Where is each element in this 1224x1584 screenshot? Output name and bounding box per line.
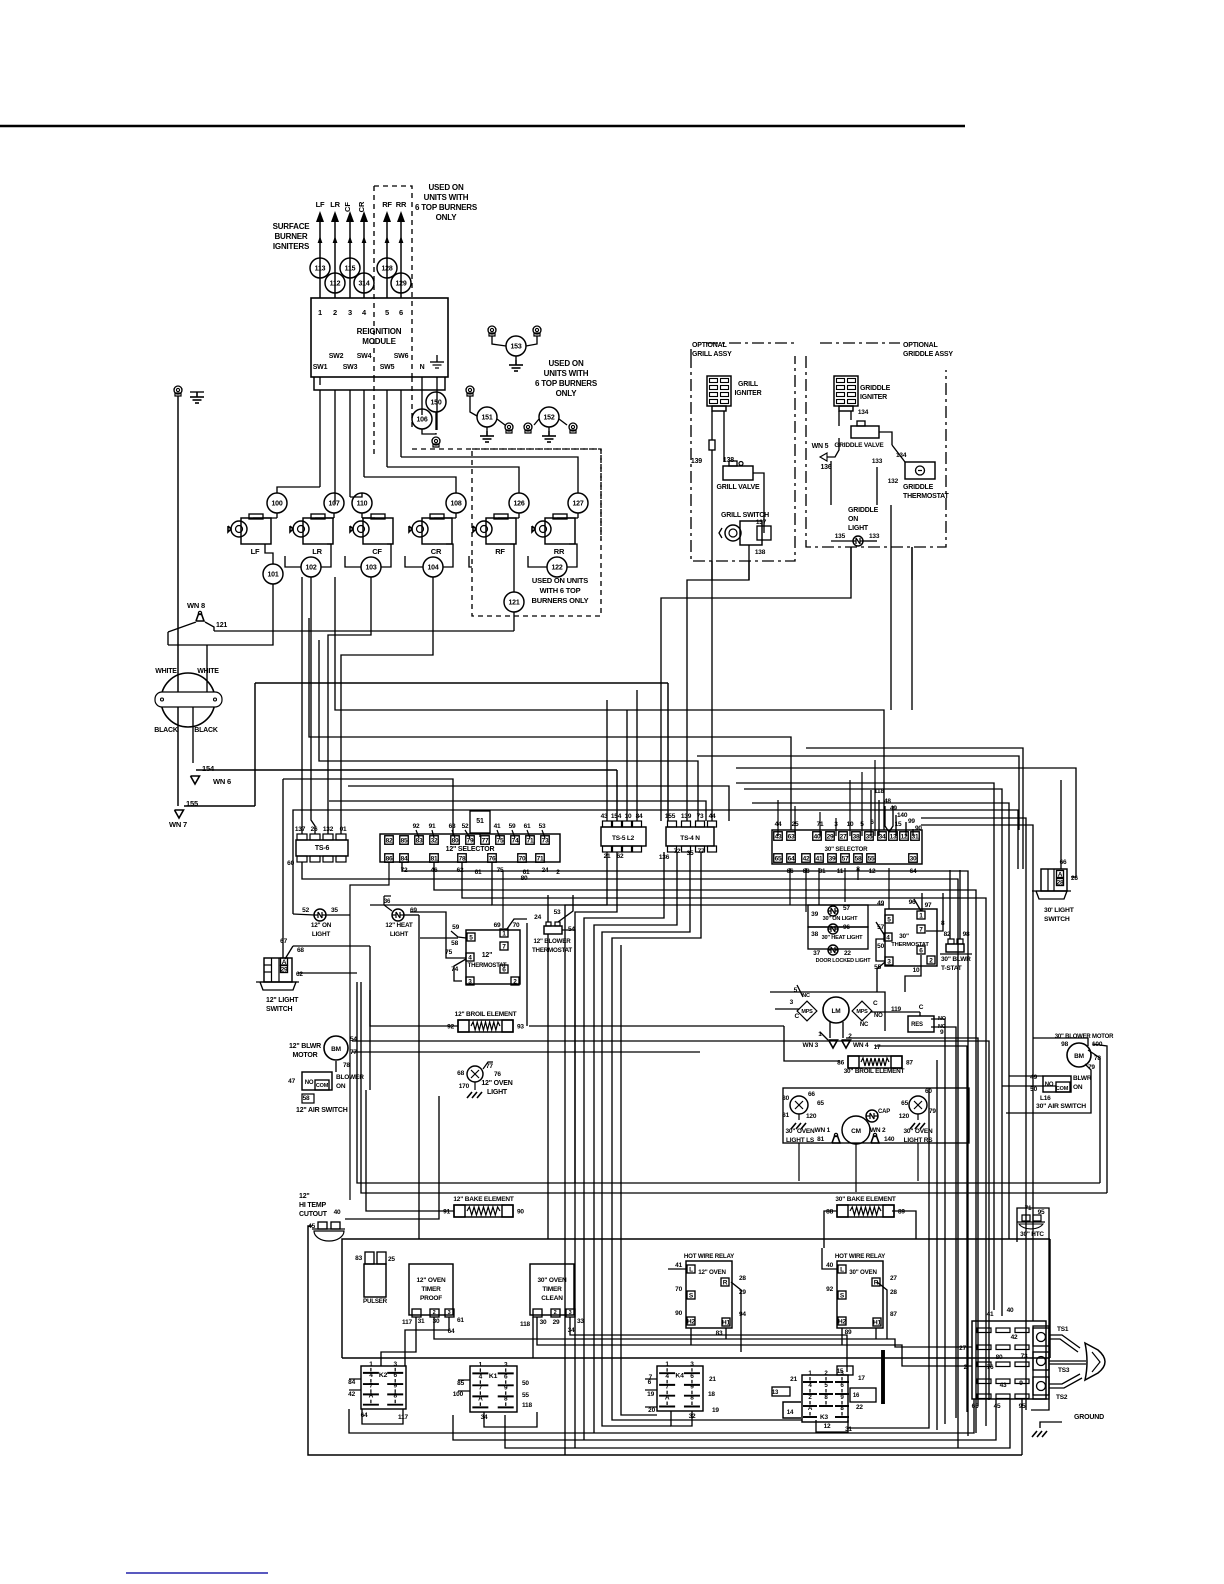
svg-text:65: 65 xyxy=(775,856,782,863)
wire bottom run 3 xyxy=(453,1399,996,1440)
wire k2 bottom loop xyxy=(362,1409,403,1424)
svg-text:K4: K4 xyxy=(675,1373,684,1380)
mps switch left xyxy=(797,1001,817,1021)
svg-text:57: 57 xyxy=(843,905,850,912)
svg-text:47: 47 xyxy=(288,1078,295,1085)
svg-text:ON: ON xyxy=(1073,1084,1083,1091)
wire belt y803 xyxy=(752,803,1009,1239)
wire bm78 lead xyxy=(1092,1044,1107,1193)
svg-text:4: 4 xyxy=(665,1373,669,1380)
switch 12 air switch xyxy=(302,1072,332,1090)
wire 106-150 terminal xyxy=(422,429,436,434)
svg-text:58: 58 xyxy=(451,940,458,947)
svg-text:1: 1 xyxy=(919,913,923,920)
wire belt y783 xyxy=(736,783,994,1310)
ground below 151 xyxy=(486,427,488,431)
wire timer12 t2 down xyxy=(434,1317,972,1347)
svg-text:7: 7 xyxy=(369,1382,373,1389)
svg-text:152: 152 xyxy=(543,415,554,422)
svg-text:71: 71 xyxy=(537,856,544,863)
svg-text:63: 63 xyxy=(449,823,456,830)
svg-text:3: 3 xyxy=(569,1310,572,1316)
svg-text:83: 83 xyxy=(355,1255,362,1262)
bell WN3 xyxy=(829,1040,838,1048)
wire sel12 diag feeders xyxy=(416,830,419,838)
svg-text:48: 48 xyxy=(884,798,891,805)
svg-text:28: 28 xyxy=(1057,880,1064,887)
svg-text:126: 126 xyxy=(513,501,524,508)
wire mid vertical 366 xyxy=(366,1090,454,1211)
wire timer30 t2 down xyxy=(537,1317,972,1366)
svg-text:5: 5 xyxy=(794,987,798,994)
blower thermostat 12 inch xyxy=(544,926,562,934)
svg-text:14: 14 xyxy=(787,1409,794,1416)
wire sel30 bottom drops xyxy=(789,868,791,905)
svg-text:140: 140 xyxy=(884,1136,895,1143)
wire blw tstat feeds xyxy=(547,895,549,922)
svg-text:A: A xyxy=(369,1393,374,1400)
wire ts5 feeder 10 xyxy=(626,710,628,821)
svg-text:K2: K2 xyxy=(379,1372,388,1379)
blower t-stat 30 xyxy=(946,944,964,952)
wire terminal block drop 1 xyxy=(1021,1399,1023,1455)
svg-text:30' LIGHT: 30' LIGHT xyxy=(1044,907,1075,914)
svg-text:12" SELECTOR: 12" SELECTOR xyxy=(446,846,495,853)
svg-text:39: 39 xyxy=(811,911,818,918)
node 101 xyxy=(263,564,283,584)
svg-text:9: 9 xyxy=(393,1382,397,1389)
wire sel bottom run 1 xyxy=(302,862,958,1448)
svg-text:30" OVEN: 30" OVEN xyxy=(538,1277,567,1284)
svg-text:27: 27 xyxy=(840,834,847,841)
svg-text:HOT WIRE RELAY: HOT WIRE RELAY xyxy=(684,1253,735,1260)
wire mid vertical 544 xyxy=(547,934,549,1239)
node 102 xyxy=(301,557,321,577)
svg-text:19: 19 xyxy=(647,1391,654,1398)
svg-text:8: 8 xyxy=(690,1395,694,1402)
wire 154 run xyxy=(196,769,617,771)
node 152 with leads xyxy=(524,423,532,431)
svg-text:69: 69 xyxy=(410,907,417,914)
wire belt y825 xyxy=(921,825,1033,1321)
wire lm frame xyxy=(770,992,885,1031)
element xyxy=(848,1056,902,1068)
svg-text:75: 75 xyxy=(497,838,504,845)
wire module ground down xyxy=(436,377,438,430)
svg-text:49: 49 xyxy=(877,900,884,907)
svg-text:NC: NC xyxy=(860,1022,869,1028)
node 110 xyxy=(352,493,372,513)
svg-text:82: 82 xyxy=(386,838,393,845)
svg-text:30" BLOWER MOTOR: 30" BLOWER MOTOR xyxy=(1055,1034,1114,1040)
svg-text:97: 97 xyxy=(925,902,932,909)
svg-text:1: 1 xyxy=(479,1361,483,1368)
svg-text:41: 41 xyxy=(494,823,501,830)
svg-text:H1: H1 xyxy=(722,1320,730,1327)
timer 12 oven proof xyxy=(409,1264,453,1315)
svg-text:84: 84 xyxy=(348,1379,355,1386)
svg-text:CM: CM xyxy=(851,1128,861,1135)
svg-text:49: 49 xyxy=(890,805,897,812)
svg-text:GRIDDLE VALVE: GRIDDLE VALVE xyxy=(834,442,884,449)
lamp 12 oven light xyxy=(467,1066,483,1082)
svg-text:128: 128 xyxy=(381,266,392,273)
motor CM xyxy=(842,1116,870,1144)
svg-text:GRIDDLE: GRIDDLE xyxy=(848,507,879,514)
node 112 xyxy=(325,273,345,293)
node 51 box xyxy=(470,811,490,833)
terminal strip TS-4 N xyxy=(666,827,714,846)
wire airswitch 49 lead xyxy=(1009,1075,1043,1077)
svg-text:98: 98 xyxy=(963,931,970,938)
svg-text:CF: CF xyxy=(343,202,352,212)
svg-text:4: 4 xyxy=(886,935,890,942)
wire hwr30 R hook xyxy=(877,1282,887,1339)
svg-text:104: 104 xyxy=(427,565,438,572)
svg-text:76: 76 xyxy=(489,856,496,863)
svg-text:17: 17 xyxy=(874,1044,881,1051)
wire t1 up xyxy=(502,871,504,928)
svg-text:3: 3 xyxy=(504,1361,508,1368)
svg-text:ONLY: ONLY xyxy=(556,389,578,398)
wire sel bottom run 5 xyxy=(492,862,884,905)
svg-text:COM: COM xyxy=(316,1083,329,1089)
svg-text:88: 88 xyxy=(826,1209,833,1216)
wire 127 to valve RR xyxy=(577,513,579,518)
svg-text:70: 70 xyxy=(519,856,526,863)
svg-text:CR: CR xyxy=(431,547,442,556)
node 103 xyxy=(361,557,381,577)
svg-text:74: 74 xyxy=(512,838,519,845)
footer link underline xyxy=(126,1572,268,1574)
wire riser x255 xyxy=(254,683,256,806)
svg-text:TS3: TS3 xyxy=(1058,1367,1070,1374)
wire belt y737 xyxy=(309,618,791,830)
svg-text:WN 4: WN 4 xyxy=(853,1042,869,1049)
svg-text:122: 122 xyxy=(551,565,562,572)
wire bm top frame xyxy=(1033,1038,1088,1046)
grill igniter xyxy=(707,376,731,406)
svg-text:30" BROIL ELEMENT: 30" BROIL ELEMENT xyxy=(844,1068,905,1075)
svg-text:TS-5 L2: TS-5 L2 xyxy=(612,835,635,842)
wire left bundle 4 xyxy=(594,852,677,1433)
wire box y810 xyxy=(293,810,1018,914)
svg-text:35: 35 xyxy=(866,834,873,841)
svg-text:GRIDDLE: GRIDDLE xyxy=(860,385,891,392)
svg-text:30" OVEN: 30" OVEN xyxy=(849,1269,877,1276)
svg-text:41: 41 xyxy=(987,1311,994,1318)
svg-text:WN 5: WN 5 xyxy=(812,443,829,450)
box 30 lights group xyxy=(808,905,868,927)
svg-text:4: 4 xyxy=(468,955,472,962)
svg-text:120: 120 xyxy=(899,1113,910,1120)
svg-text:59: 59 xyxy=(509,823,516,830)
svg-text:C: C xyxy=(873,1000,878,1007)
svg-text:134: 134 xyxy=(896,452,907,459)
wire bm77 xyxy=(352,1051,700,1053)
svg-text:153: 153 xyxy=(510,344,521,351)
wire left bundle 3 xyxy=(584,852,664,1440)
svg-text:27: 27 xyxy=(890,1275,897,1282)
wire belt y710 xyxy=(335,577,884,830)
svg-text:29: 29 xyxy=(553,1319,560,1326)
svg-text:49: 49 xyxy=(1030,1074,1037,1081)
svg-text:85: 85 xyxy=(457,1380,464,1387)
svg-text:GRIDDLE ASSY: GRIDDLE ASSY xyxy=(903,351,953,358)
burner valve CF xyxy=(363,518,393,544)
svg-text:50: 50 xyxy=(1030,1086,1037,1093)
ground top-left xyxy=(190,391,204,393)
svg-text:A: A xyxy=(1058,872,1063,879)
wire bm54 xyxy=(352,1040,890,1042)
svg-text:K1: K1 xyxy=(489,1373,498,1380)
burner valve LF xyxy=(241,518,271,544)
svg-text:29: 29 xyxy=(281,967,288,974)
wire to node 127 xyxy=(401,457,578,493)
svg-text:THERMOSTAT: THERMOSTAT xyxy=(532,947,572,954)
svg-text:30" BAKE ELEMENT: 30" BAKE ELEMENT xyxy=(835,1196,895,1203)
svg-text:30" AIR SWITCH: 30" AIR SWITCH xyxy=(1036,1103,1086,1110)
svg-text:34: 34 xyxy=(879,834,886,841)
wire hwr12 h1 down xyxy=(725,1328,727,1339)
svg-text:137: 137 xyxy=(295,826,306,833)
wire to node 126 xyxy=(387,467,519,493)
svg-text:38: 38 xyxy=(853,834,860,841)
svg-text:155: 155 xyxy=(665,813,676,820)
relay K1 xyxy=(470,1366,517,1412)
wire griddle down leads xyxy=(850,547,852,580)
wire SW3 down xyxy=(349,390,351,497)
wire white right lead xyxy=(206,645,208,692)
wire grill valve right xyxy=(753,473,764,533)
wire mid vertical 419 xyxy=(418,915,420,1239)
wire bottom run 4 xyxy=(505,1399,1010,1448)
wire k4 hooks xyxy=(645,1378,657,1380)
lamp 30 on light xyxy=(828,906,838,916)
node 106 xyxy=(412,409,432,429)
svg-text:SWITCH: SWITCH xyxy=(1044,916,1070,923)
wire k4 bottom loop xyxy=(671,1411,692,1426)
svg-text:98: 98 xyxy=(1061,1041,1068,1048)
element 12" BROIL ELEMENT xyxy=(458,1020,513,1032)
dashed-dot box optional griddle assy xyxy=(806,356,946,547)
svg-text:GRILL: GRILL xyxy=(738,381,759,388)
svg-text:94: 94 xyxy=(739,1311,746,1318)
svg-text:12: 12 xyxy=(824,1423,831,1430)
wire central bundle 3 xyxy=(931,1027,956,1418)
svg-text:121: 121 xyxy=(508,600,519,607)
wire lights box drops xyxy=(798,1143,800,1181)
lamp door locked light xyxy=(828,945,838,955)
svg-text:31: 31 xyxy=(418,1318,425,1325)
dashed box used-on-6-burners (module columns 5-6) xyxy=(374,186,412,377)
svg-text:USED ON UNITS: USED ON UNITS xyxy=(532,576,588,585)
wire term2 right xyxy=(521,923,527,981)
svg-text:62: 62 xyxy=(296,971,303,978)
terminal block side strip xyxy=(1033,1326,1049,1399)
svg-text:OPTIONAL: OPTIONAL xyxy=(903,342,938,349)
wire lamp52 lead xyxy=(293,914,314,915)
dashed-dot box optional grill assy xyxy=(691,356,795,561)
latch motor LM xyxy=(823,997,849,1023)
node 128 xyxy=(377,258,397,278)
svg-text:134: 134 xyxy=(858,409,869,416)
svg-text:LR: LR xyxy=(330,200,340,209)
svg-text:154: 154 xyxy=(611,813,622,820)
svg-text:92: 92 xyxy=(413,823,420,830)
svg-text:68: 68 xyxy=(297,947,304,954)
svg-text:90: 90 xyxy=(675,1310,682,1317)
svg-text:MPS: MPS xyxy=(801,1009,813,1015)
svg-text:ON: ON xyxy=(848,516,858,523)
wire 134 to thermostat xyxy=(892,445,905,462)
svg-text:6 TOP BURNERS: 6 TOP BURNERS xyxy=(415,203,478,212)
svg-text:DOOR LOCKED LIGHT: DOOR LOCKED LIGHT xyxy=(816,958,872,964)
svg-text:12" ON: 12" ON xyxy=(311,922,332,929)
svg-text:CLEAN: CLEAN xyxy=(541,1295,563,1302)
svg-text:107: 107 xyxy=(328,501,339,508)
wire 283 down xyxy=(282,779,284,958)
wire 155 run xyxy=(184,805,255,807)
svg-text:9: 9 xyxy=(504,1384,508,1391)
wire ts6 feeder 132 xyxy=(328,577,371,834)
element 12" BAKE ELEMENT xyxy=(454,1205,513,1217)
svg-text:12" OVEN: 12" OVEN xyxy=(481,1080,512,1087)
svg-text:15: 15 xyxy=(837,1369,844,1375)
svg-text:61: 61 xyxy=(524,823,531,830)
svg-text:22: 22 xyxy=(844,950,851,957)
cap lamp xyxy=(866,1110,878,1122)
svg-text:BLWR: BLWR xyxy=(1073,1075,1092,1082)
wire left bundle 2 xyxy=(575,852,617,1448)
svg-text:6: 6 xyxy=(399,308,403,317)
wire grill switch down xyxy=(748,545,750,561)
svg-text:1: 1 xyxy=(502,931,506,938)
svg-text:UNITS WITH: UNITS WITH xyxy=(424,193,469,202)
wire timer30 t1 down xyxy=(532,1317,534,1358)
svg-text:LM: LM xyxy=(832,1008,841,1015)
node 122 xyxy=(547,557,567,577)
relay K4 xyxy=(657,1366,703,1411)
relay K3 xyxy=(802,1375,848,1422)
svg-text:42: 42 xyxy=(348,1391,355,1398)
wire 118 staircase xyxy=(870,790,872,836)
svg-text:TIMER: TIMER xyxy=(421,1286,441,1293)
svg-text:30" BLWR: 30" BLWR xyxy=(941,956,971,963)
module internal ground xyxy=(436,355,438,362)
hot wire relay 30" OVEN xyxy=(837,1261,883,1328)
svg-text:78: 78 xyxy=(459,856,466,863)
selector 30 inch box xyxy=(772,830,922,864)
svg-text:36: 36 xyxy=(384,899,391,905)
wire mps 3 lead xyxy=(775,1008,799,1010)
svg-text:65: 65 xyxy=(817,1100,824,1107)
svg-text:77: 77 xyxy=(482,838,489,845)
svg-text:T-STAT: T-STAT xyxy=(941,965,962,972)
svg-text:92: 92 xyxy=(826,1286,833,1293)
svg-text:9: 9 xyxy=(690,1384,694,1391)
wire grill igniter down xyxy=(711,411,713,440)
svg-text:87: 87 xyxy=(890,1311,897,1318)
node 115 xyxy=(340,258,360,278)
svg-text:170: 170 xyxy=(459,1083,470,1090)
svg-text:21: 21 xyxy=(709,1376,716,1383)
svg-text:6: 6 xyxy=(690,1373,694,1380)
wire belt y779 xyxy=(283,779,453,836)
svg-text:139: 139 xyxy=(681,813,692,820)
burner valve LR xyxy=(303,518,333,544)
svg-text:IGNITER: IGNITER xyxy=(735,390,762,397)
svg-text:81: 81 xyxy=(782,1112,789,1119)
svg-text:76: 76 xyxy=(987,1364,994,1371)
terminal below 150 xyxy=(432,437,440,445)
wire inner box bottom xyxy=(342,1357,1050,1359)
svg-text:53: 53 xyxy=(554,909,561,916)
griddle igniter xyxy=(834,376,858,406)
griddle thermostat xyxy=(905,462,935,479)
svg-text:IGNITER: IGNITER xyxy=(860,394,887,401)
svg-text:55: 55 xyxy=(868,856,875,863)
svg-text:91: 91 xyxy=(443,1209,450,1216)
svg-text:52: 52 xyxy=(302,907,309,914)
grill valve xyxy=(723,466,753,480)
wire SW5 down xyxy=(386,390,388,467)
svg-text:6 TOP BURNERS: 6 TOP BURNERS xyxy=(535,379,598,388)
svg-text:9: 9 xyxy=(1019,1380,1023,1387)
svg-text:40: 40 xyxy=(334,1209,341,1216)
wire 108 to valve CR xyxy=(455,513,457,518)
svg-text:24: 24 xyxy=(534,914,541,921)
svg-text:57: 57 xyxy=(842,856,849,863)
svg-text:51: 51 xyxy=(476,818,484,825)
svg-text:UNITS WITH: UNITS WITH xyxy=(544,369,589,378)
wire 68 diag xyxy=(285,946,293,959)
wire central bundle 6 xyxy=(890,1041,989,1400)
svg-text:L: L xyxy=(689,1267,693,1274)
svg-text:96: 96 xyxy=(843,924,850,931)
svg-text:80: 80 xyxy=(782,1095,789,1102)
wire sel bottom run 4 xyxy=(462,862,986,1426)
svg-text:150: 150 xyxy=(430,400,441,407)
wire belt y786 xyxy=(348,786,729,821)
svg-text:9: 9 xyxy=(940,1029,944,1036)
hook 77 to oven light xyxy=(483,1062,493,1069)
svg-text:THERMOSTAT: THERMOSTAT xyxy=(468,963,507,969)
svg-text:3: 3 xyxy=(468,979,472,986)
svg-text:139: 139 xyxy=(691,458,702,465)
svg-text:58: 58 xyxy=(303,1095,310,1102)
inner box lower xyxy=(342,1239,1050,1358)
selector 12 inch box xyxy=(380,834,560,862)
svg-text:H1: H1 xyxy=(873,1320,881,1327)
wire central bundle 4 xyxy=(876,1046,967,1412)
svg-text:SW4: SW4 xyxy=(357,353,372,360)
svg-text:83: 83 xyxy=(716,1330,723,1337)
svg-text:73: 73 xyxy=(1021,1353,1028,1360)
svg-text:2: 2 xyxy=(929,958,933,965)
burner valve RF xyxy=(486,518,516,544)
svg-text:12": 12" xyxy=(299,1193,310,1200)
svg-text:7: 7 xyxy=(919,927,923,934)
svg-text:TS1: TS1 xyxy=(1057,1326,1069,1333)
svg-text:3: 3 xyxy=(790,999,794,1006)
svg-text:1: 1 xyxy=(318,308,322,317)
svg-text:80: 80 xyxy=(452,838,459,845)
svg-text:61: 61 xyxy=(457,1317,464,1324)
svg-text:GRIDDLE: GRIDDLE xyxy=(903,484,934,491)
dashed box used on units with 6 top burners (valves) xyxy=(472,449,601,616)
svg-text:52: 52 xyxy=(462,823,469,830)
